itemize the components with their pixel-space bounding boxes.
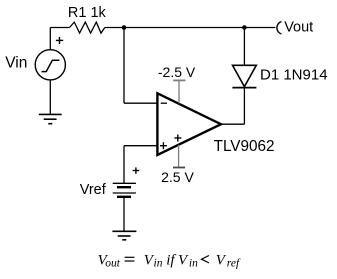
op-amp U1 TLV9062 [157, 93, 221, 155]
plus sign Vin [56, 37, 63, 44]
wire output horizontal [221, 123, 244, 125]
wire top from resistor to Vout connector [105, 27, 276, 29]
wire output vertical below diode [243, 88, 245, 125]
svg-text:TLV9062: TLV9062 [214, 138, 275, 155]
wire top from Vin to resistor [50, 27, 69, 29]
svg-text:ref: ref [227, 258, 241, 270]
pin positive supply bottom [173, 145, 185, 168]
wire Vin bottom [49, 80, 51, 114]
ground under Vref [112, 231, 136, 240]
wire anode to top junction [243, 28, 245, 66]
svg-text:D1 1N914: D1 1N914 [260, 66, 328, 83]
connector Vout [277, 22, 282, 34]
wire feedback vertical [123, 28, 125, 104]
wire Vin top [49, 28, 51, 50]
svg-text:in: in [189, 258, 198, 270]
plus sign Vref [133, 167, 140, 173]
formula Vout = Vin if Vin < Vref [98, 253, 241, 270]
svg-text:in: in [154, 258, 163, 270]
node junction output [242, 25, 247, 30]
svg-text:-2.5 V: -2.5 V [158, 64, 196, 80]
ground under Vin [39, 114, 62, 123]
battery Vref [113, 183, 136, 197]
minus sign inverting input [161, 102, 167, 104]
wire noninverting horizontal [124, 145, 157, 147]
svg-text:Vout: Vout [284, 20, 313, 36]
node junction feedback [122, 25, 127, 30]
wire noninverting vertical to Vref [123, 146, 125, 184]
wire feedback horizontal to inverting input [124, 102, 157, 104]
source V1 Vin [35, 50, 65, 80]
svg-text:R1 1k: R1 1k [68, 5, 107, 21]
plus sign noninverting input [160, 142, 167, 149]
wire battery to ground [123, 197, 125, 232]
svg-text:Vref: Vref [80, 182, 107, 198]
pin negative supply top [173, 80, 185, 103]
diode D1 [233, 65, 257, 86]
svg-text:out: out [105, 258, 121, 270]
resistor R1 [70, 22, 105, 33]
svg-text:Vin: Vin [5, 55, 27, 72]
svg-text:2.5 V: 2.5 V [161, 169, 194, 185]
plus sign positive supply [174, 135, 181, 142]
